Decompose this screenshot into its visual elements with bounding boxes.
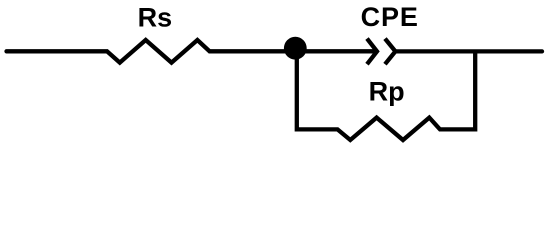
- svg-text:Rs: Rs: [138, 3, 173, 33]
- svg-text:Rp: Rp: [369, 77, 405, 107]
- svg-text:CPE: CPE: [361, 2, 419, 32]
